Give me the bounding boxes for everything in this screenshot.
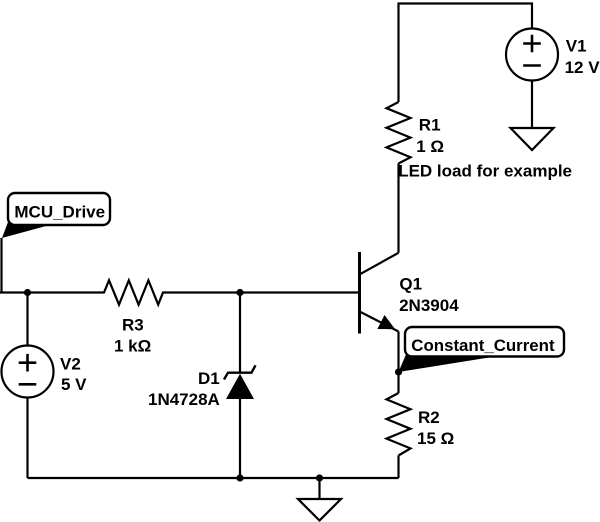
label R3 value 1 kohm bbox=[114, 316, 151, 356]
base bar bbox=[358, 252, 361, 334]
svg-text:Q1: Q1 bbox=[399, 275, 422, 294]
wire D1 to bottom rail bbox=[239, 399, 241, 478]
svg-text:D1: D1 bbox=[198, 369, 220, 388]
label Q1 value 2N3904 bbox=[399, 275, 459, 315]
svg-text:V2: V2 bbox=[60, 355, 81, 374]
svg-text:R2: R2 bbox=[418, 408, 440, 427]
resistor R1 bbox=[387, 102, 411, 164]
node junction emitter/flag bbox=[395, 368, 402, 375]
emitter diagonal bbox=[361, 312, 399, 332]
svg-text:1N4728A: 1N4728A bbox=[148, 390, 220, 409]
node junction ground stem bbox=[316, 474, 323, 481]
label R1 value 1 ohm bbox=[416, 116, 444, 156]
collector diagonal bbox=[361, 253, 399, 274]
svg-text:R3: R3 bbox=[122, 316, 144, 335]
svg-text:12 V: 12 V bbox=[565, 58, 600, 77]
node junction D1 bottom bbox=[236, 474, 243, 481]
net flag MCU_Drive bbox=[2, 193, 111, 293]
svg-text:LED load for example: LED load for example bbox=[398, 161, 572, 180]
wire R2 to bottom rail bbox=[397, 456, 399, 479]
ground (bottom) bbox=[298, 499, 341, 521]
label V2 value 5 V bbox=[60, 355, 87, 394]
wire R1 to Q1 collector bbox=[397, 164, 399, 253]
label R2 value 15 ohm bbox=[417, 408, 454, 448]
voltage source V2 bbox=[2, 346, 54, 398]
wire top rail from R1 branch to V1 bbox=[399, 4, 533, 103]
svg-text:Constant_Current: Constant_Current bbox=[411, 336, 555, 355]
wire rail to V2 bbox=[26, 293, 28, 346]
svg-text:2N3904: 2N3904 bbox=[399, 296, 459, 315]
node junction D1 top bbox=[236, 289, 243, 296]
wire V2 to bottom rail bbox=[26, 398, 28, 479]
wire bottom rail bbox=[28, 477, 399, 479]
resistor R2 bbox=[387, 393, 411, 456]
svg-text:1 kΩ: 1 kΩ bbox=[114, 336, 151, 355]
svg-text:MCU_Drive: MCU_Drive bbox=[14, 202, 105, 221]
wire ground stem bbox=[318, 478, 320, 499]
svg-text:R1: R1 bbox=[419, 116, 441, 135]
svg-text:1 Ω: 1 Ω bbox=[416, 137, 444, 156]
svg-text:V1: V1 bbox=[566, 37, 587, 56]
voltage source V1 bbox=[506, 29, 558, 81]
ground (V1) bbox=[511, 128, 554, 150]
wire V1 to ground bbox=[531, 81, 533, 129]
wire main base rail with resistor R3 zigzag bbox=[0, 280, 360, 304]
emitter arrowhead bbox=[378, 316, 394, 329]
node junction V2/rail bbox=[24, 289, 31, 296]
wire rail to D1 bbox=[239, 293, 241, 373]
zener diode D1 1N4728A bbox=[224, 365, 256, 399]
net flag Constant_Current bbox=[399, 327, 565, 372]
label V1 value 12 V bbox=[565, 37, 600, 77]
wire Q1 emitter to R2 bbox=[397, 332, 399, 394]
svg-text:15 Ω: 15 Ω bbox=[417, 429, 454, 448]
label D1 value 1N4728A bbox=[148, 369, 220, 409]
transistor Q1 2N3904 bbox=[360, 252, 399, 334]
svg-text:5 V: 5 V bbox=[61, 375, 87, 394]
